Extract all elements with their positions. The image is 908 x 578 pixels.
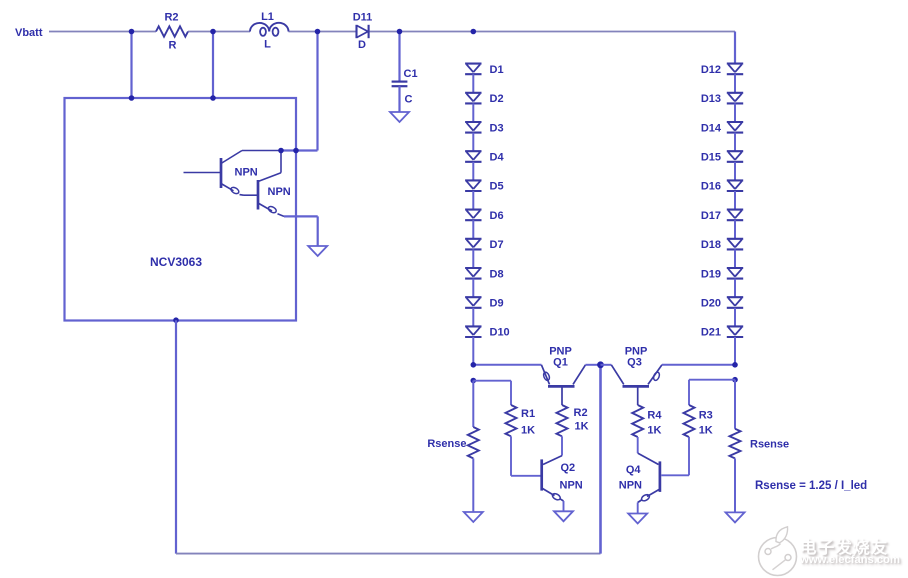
svg-text:R2: R2 bbox=[574, 407, 588, 419]
svg-text:D10: D10 bbox=[490, 327, 510, 339]
svg-text:D21: D21 bbox=[701, 327, 721, 339]
svg-text:D1: D1 bbox=[490, 64, 504, 76]
svg-text:Q1: Q1 bbox=[553, 357, 568, 369]
svg-text:D3: D3 bbox=[490, 122, 504, 134]
svg-text:L: L bbox=[264, 39, 271, 51]
svg-text:D17: D17 bbox=[701, 210, 721, 222]
svg-text:1K: 1K bbox=[647, 425, 661, 437]
svg-text:D8: D8 bbox=[490, 268, 504, 280]
svg-text:Rsense = 1.25 / I_led: Rsense = 1.25 / I_led bbox=[755, 480, 867, 492]
svg-text:1K: 1K bbox=[699, 425, 713, 437]
svg-text:D14: D14 bbox=[701, 122, 722, 134]
svg-text:D19: D19 bbox=[701, 268, 721, 280]
svg-text:NPN: NPN bbox=[619, 480, 642, 492]
svg-text:D5: D5 bbox=[490, 181, 504, 193]
svg-text:1K: 1K bbox=[575, 421, 589, 433]
svg-text:R: R bbox=[169, 40, 177, 52]
svg-text:1K: 1K bbox=[521, 425, 535, 437]
svg-text:D12: D12 bbox=[701, 64, 721, 76]
svg-text:D2: D2 bbox=[490, 93, 504, 105]
svg-text:NPN: NPN bbox=[235, 167, 258, 179]
svg-text:Rsense: Rsense bbox=[427, 438, 466, 450]
svg-text:D16: D16 bbox=[701, 181, 721, 193]
svg-text:D: D bbox=[358, 39, 366, 51]
svg-text:D6: D6 bbox=[490, 210, 504, 222]
svg-text:D18: D18 bbox=[701, 239, 721, 251]
svg-text:C1: C1 bbox=[404, 68, 418, 80]
svg-text:Q2: Q2 bbox=[561, 462, 576, 474]
svg-text:D4: D4 bbox=[490, 152, 505, 164]
svg-text:D11: D11 bbox=[353, 12, 373, 24]
svg-text:D7: D7 bbox=[490, 239, 504, 251]
svg-text:R3: R3 bbox=[699, 410, 713, 422]
svg-text:D15: D15 bbox=[701, 152, 721, 164]
svg-text:C: C bbox=[405, 94, 413, 106]
svg-text:D13: D13 bbox=[701, 93, 721, 105]
svg-text:NCV3063: NCV3063 bbox=[150, 255, 202, 269]
svg-text:Q4: Q4 bbox=[626, 464, 642, 476]
svg-text:NPN: NPN bbox=[560, 480, 583, 492]
svg-text:Q3: Q3 bbox=[627, 357, 642, 369]
svg-text:L1: L1 bbox=[261, 11, 274, 23]
svg-text:D9: D9 bbox=[490, 298, 504, 310]
svg-text:Vbatt: Vbatt bbox=[15, 27, 43, 39]
svg-text:R4: R4 bbox=[647, 410, 662, 422]
svg-text:R1: R1 bbox=[521, 408, 535, 420]
svg-text:R2: R2 bbox=[164, 12, 178, 24]
svg-text:D20: D20 bbox=[701, 298, 721, 310]
svg-text:NPN: NPN bbox=[268, 186, 291, 198]
svg-text:Rsense: Rsense bbox=[750, 439, 789, 451]
